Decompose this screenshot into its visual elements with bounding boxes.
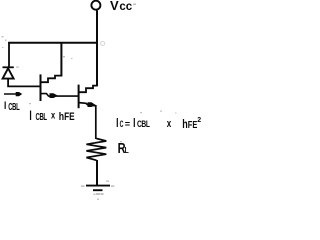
wire: resistor to ground (96, 160, 98, 185)
transistor Q1 emitter arrow (50, 93, 59, 98)
label RL (118, 140, 129, 157)
svg-text:FE: FE (188, 119, 198, 131)
transistor Q2 collector lead (79, 86, 98, 93)
diode D1 triangle (3, 68, 14, 78)
wire: top rail (8, 42, 98, 44)
svg-text:L: L (125, 145, 129, 155)
transistor Q2 emitter lead (79, 103, 96, 139)
ground bar 2 (93, 189, 103, 191)
label ICBL x hFE (29, 109, 74, 123)
label Ic=Icbl x hFE2 (116, 116, 201, 131)
Vcc terminal (91, 1, 100, 10)
transistor Q2 base bar (78, 85, 80, 109)
svg-text:x: x (167, 118, 172, 131)
svg-text:I: I (133, 116, 135, 130)
svg-text:CBL: CBL (36, 111, 48, 122)
svg-text:C: C (120, 118, 124, 129)
svg-text:I: I (29, 109, 31, 123)
svg-text:I: I (4, 100, 7, 113)
svg-text:I: I (116, 116, 118, 130)
current arrow ICBL (4, 93, 17, 95)
svg-text:=: = (125, 118, 131, 129)
ground bar 1 (86, 185, 110, 187)
resistor RL (86, 139, 106, 161)
transistor Q1 emitter lead (41, 94, 79, 97)
wire: Q1 collector riser (60, 42, 62, 76)
Vcc label (110, 0, 133, 13)
wire: diode anode to Q1 base (8, 79, 40, 87)
svg-text:cc: cc (119, 1, 132, 13)
transistor Q1 collector lead (41, 76, 62, 83)
svg-text:x: x (51, 110, 55, 121)
scan noise speckles (2, 4, 177, 200)
transistor Q2 emitter arrow (88, 102, 96, 107)
diode D1 cathode bar (3, 66, 14, 68)
svg-text:2: 2 (197, 117, 201, 124)
wire: left drop to diode (8, 42, 10, 68)
wire: Vcc vertical (96, 10, 98, 86)
svg-text:V: V (110, 0, 119, 13)
ground bar 3 faint (96, 193, 100, 195)
label ICBL (4, 100, 20, 113)
transistor Q1 base bar (40, 74, 42, 101)
svg-text:CBL: CBL (8, 101, 20, 112)
svg-text:hFE: hFE (59, 111, 75, 123)
svg-text:CBL: CBL (137, 119, 150, 129)
